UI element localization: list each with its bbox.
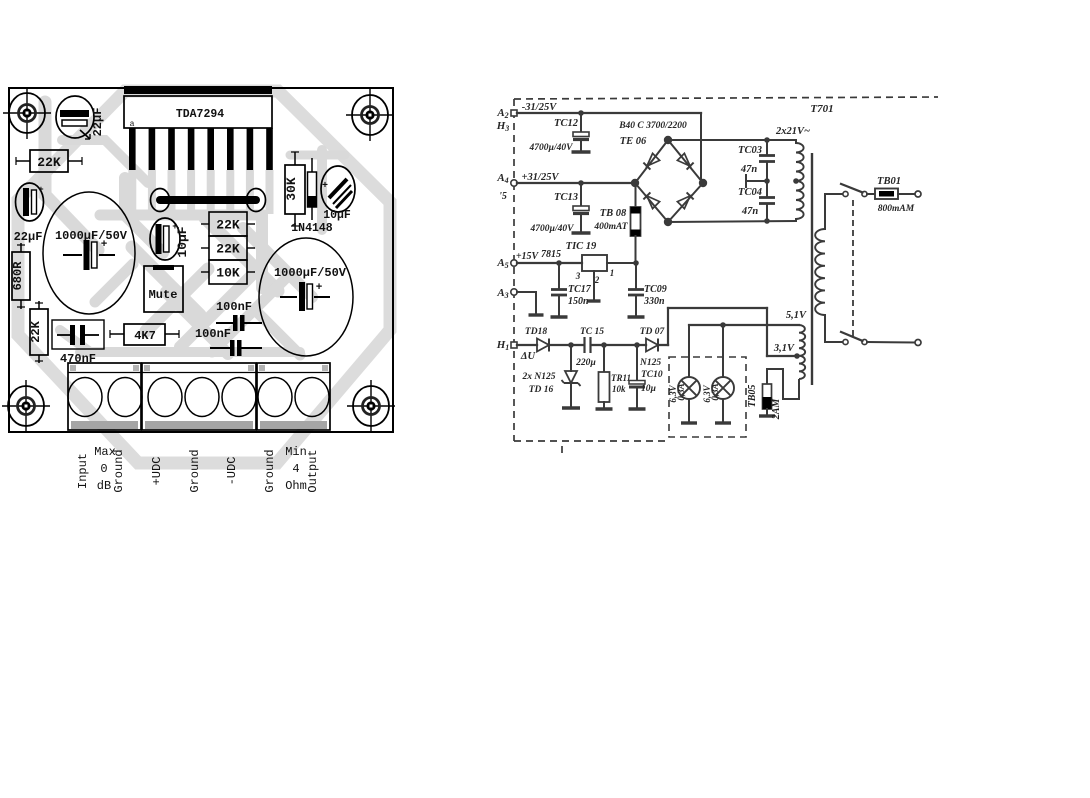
svg-text:Output: Output [306,449,320,492]
svg-text:400mAT: 400mAT [593,222,628,232]
svg-text:+UDC: +UDC [150,457,164,486]
svg-text:2x21V~: 2x21V~ [775,126,810,137]
resistor stack 22K 22K 10K [201,212,255,284]
svg-text:4: 4 [292,462,299,476]
svg-text:TC 15: TC 15 [580,327,604,337]
svg-text:a: a [130,120,135,129]
svg-text:0: 0 [100,462,107,476]
svg-text:TC03: TC03 [738,145,762,156]
svg-text:TB01: TB01 [877,176,901,187]
lamp LA2 6.3V 0.3A [702,325,734,423]
svg-text:30K: 30K [284,177,299,201]
capacitor 100nF upper [216,300,262,331]
svg-text:A3: A3 [496,287,508,300]
resistor 30K [284,152,305,226]
svg-text:A2: A2 [496,107,508,120]
svg-text:TIC 19: TIC 19 [566,241,597,252]
svg-text:'5: '5 [499,191,507,202]
svg-text:4700µ/40V: 4700µ/40V [529,143,574,153]
svg-text:TD 07: TD 07 [640,327,666,337]
svg-text:470nF: 470nF [60,352,96,366]
svg-text:dB: dB [97,479,111,493]
svg-text:22K: 22K [216,242,240,257]
bridge rectifier TE06 B40C3700/2200 [618,121,707,226]
svg-text:10µF: 10µF [175,226,190,257]
wire 5.1V lamp rail [689,322,799,328]
svg-text:TC04: TC04 [738,187,762,198]
lamps dashed box [669,357,746,437]
IC TDA7294 body [124,96,272,129]
wire TD07 to 3.1V tap [668,308,796,356]
diode TD07 [604,327,668,352]
switch link dashed [852,200,854,338]
capacitor TC13 4700u/40V [530,180,591,234]
wire H1 rail [517,344,537,346]
svg-text:22K: 22K [37,155,61,170]
wire +31V rail [517,182,635,184]
svg-text:22K: 22K [29,320,43,342]
diode 1N4148 [291,158,333,235]
resistor TR11 10k [596,342,632,409]
svg-text:0,3A: 0,3A [676,383,686,400]
capacitor 1000uF/50V right [259,238,353,356]
svg-text:-31/25V: -31/25V [522,102,557,113]
capacitor TC09 330n [628,260,667,317]
svg-text:+31/25V: +31/25V [522,172,560,183]
svg-text:H3: H3 [496,120,510,133]
capacitor TC03 47n [738,137,775,181]
transformer secondary winding 5.1V/3.1V [773,310,807,379]
svg-text:1N4148: 1N4148 [291,222,333,235]
svg-text:5,1V: 5,1V [786,310,807,321]
resistor 22K left-bottom [29,301,48,363]
terminal A5 [496,257,517,270]
capacitor TC12 4700u/40V [529,110,591,153]
resistor 680R [11,243,30,309]
svg-text:1000µF/50V: 1000µF/50V [274,266,347,280]
svg-text:680R: 680R [11,261,25,291]
svg-text:1000µF/50V: 1000µF/50V [55,229,128,243]
capacitor 100nF lower [195,327,262,356]
svg-text:4K7: 4K7 [134,329,156,343]
svg-text:TC09: TC09 [644,284,667,295]
terminal A3 [496,287,517,300]
svg-text:2AM: 2AM [771,398,782,421]
svg-text:Ground: Ground [263,449,277,492]
watermark gray octagon logo [18,91,390,463]
svg-text:+: + [322,181,328,192]
winding center tap stub [746,174,767,188]
transformer primary winding [815,194,844,342]
diode TD18 [525,327,571,352]
svg-text:330n: 330n [643,296,665,307]
svg-text:Input: Input [76,453,90,489]
svg-text:TC13: TC13 [554,192,578,203]
capacitor TC15 220u [571,327,604,368]
wire A3 to common [517,292,544,315]
svg-text:4700µ/40V: 4700µ/40V [530,224,575,234]
svg-text:Ohm: Ohm [285,479,307,493]
svg-text:22µF: 22µF [91,108,105,137]
capacitor TC17 150n [551,263,592,317]
svg-text:10k: 10k [612,384,626,394]
svg-text:TB 08: TB 08 [600,208,627,219]
svg-text:TE 06: TE 06 [620,136,647,147]
svg-text:TD18: TD18 [525,327,547,337]
capacitor 22uF top [56,96,94,139]
svg-text:7815: 7815 [541,249,561,260]
mounting hole bottom-right [347,380,395,432]
svg-text:N125: N125 [639,358,661,368]
svg-text:B40 C 3700/2200: B40 C 3700/2200 [618,121,687,131]
svg-text:ΔU: ΔU [520,351,537,362]
svg-text:3,1V: 3,1V [773,343,795,354]
lamp LA1 6.3V 0.3A [668,325,700,423]
svg-text:Mute: Mute [149,288,178,302]
resistor 4K7 [110,324,179,345]
capacitor 470nF [52,320,104,366]
svg-text:+15V: +15V [516,251,540,262]
svg-text:10µ: 10µ [641,384,657,394]
svg-text:47n: 47n [741,206,759,217]
mounting hole bottom-left [2,380,50,432]
svg-text:Ground: Ground [112,449,126,492]
switch S1b [840,332,921,346]
svg-text:TC12: TC12 [554,118,579,129]
pin labels [76,445,320,493]
fuse TB08 400mAT [593,183,640,262]
capacitor 10uF top-right [321,166,355,222]
svg-text:10µF: 10µF [323,209,351,222]
terminal blocks [68,363,330,430]
svg-text:TR11: TR11 [611,373,631,383]
svg-text:22K: 22K [216,218,240,233]
svg-text:Ground: Ground [188,449,202,492]
wire bridge to winding bottom [668,221,796,222]
mounting hole top-right [346,89,394,141]
svg-text:3: 3 [575,271,581,281]
svg-text:-UDC: -UDC [225,457,239,486]
capacitor 1000uF/50V left [43,192,135,314]
svg-text:47n: 47n [740,164,758,175]
svg-text:TC10: TC10 [641,370,663,380]
IC TDA7294 pins [129,128,273,170]
switch S1a [840,184,867,197]
svg-text:TB05: TB05 [747,385,758,408]
jumper wire [151,189,266,212]
svg-text:+: + [316,282,323,294]
watermark gray traces [45,102,345,355]
IC TDA7294 heatsink bar [124,86,272,94]
svg-text:2x N125: 2x N125 [522,372,556,382]
svg-text:TD 16: TD 16 [529,385,554,395]
svg-text:A5: A5 [496,257,508,270]
mounting hole top-left [3,87,51,139]
terminal A2 [496,107,517,133]
fuse TB05 2AM [747,369,799,420]
svg-text:0,3A: 0,3A [710,383,720,400]
svg-text:+: + [101,239,108,251]
svg-text:220µ: 220µ [575,358,596,368]
svg-text:1: 1 [610,268,615,278]
svg-text:100nF: 100nF [195,327,231,341]
resistor 22K top [16,150,82,172]
capacitor TC04 47n [738,178,775,224]
svg-text:TDA7294: TDA7294 [176,108,224,121]
mute terminal [144,265,183,312]
svg-text:22µF: 22µF [14,230,43,244]
PCB board outline [9,88,393,432]
svg-text:+: + [38,185,43,195]
transformer core [811,153,813,385]
svg-text:T701: T701 [810,103,833,115]
terminal A4 [496,172,517,202]
svg-text:150n: 150n [568,296,589,307]
svg-text:TC17: TC17 [568,284,592,295]
schematic dashed enclosure [514,97,938,453]
wire -31V rail [517,113,701,183]
svg-text:H1: H1 [496,339,510,352]
svg-text:10K: 10K [216,266,240,281]
capacitor TC10 10u [629,342,663,409]
svg-text:Min: Min [285,445,307,459]
svg-text:800mAM: 800mAM [878,204,915,214]
capacitor 22uF left [14,183,44,244]
fuse TB01 800mA [867,176,921,214]
transformer secondary winding 2x21V [775,126,810,221]
svg-text:A4: A4 [496,172,508,185]
svg-text:100nF: 100nF [216,300,252,314]
wire bridge to winding top [668,139,796,141]
capacitor 10uF middle [150,218,180,260]
terminal H1 [496,339,517,352]
zener diode TD16 2xN125 [522,342,581,408]
regulator IC 7815 TIC19 [517,241,636,301]
